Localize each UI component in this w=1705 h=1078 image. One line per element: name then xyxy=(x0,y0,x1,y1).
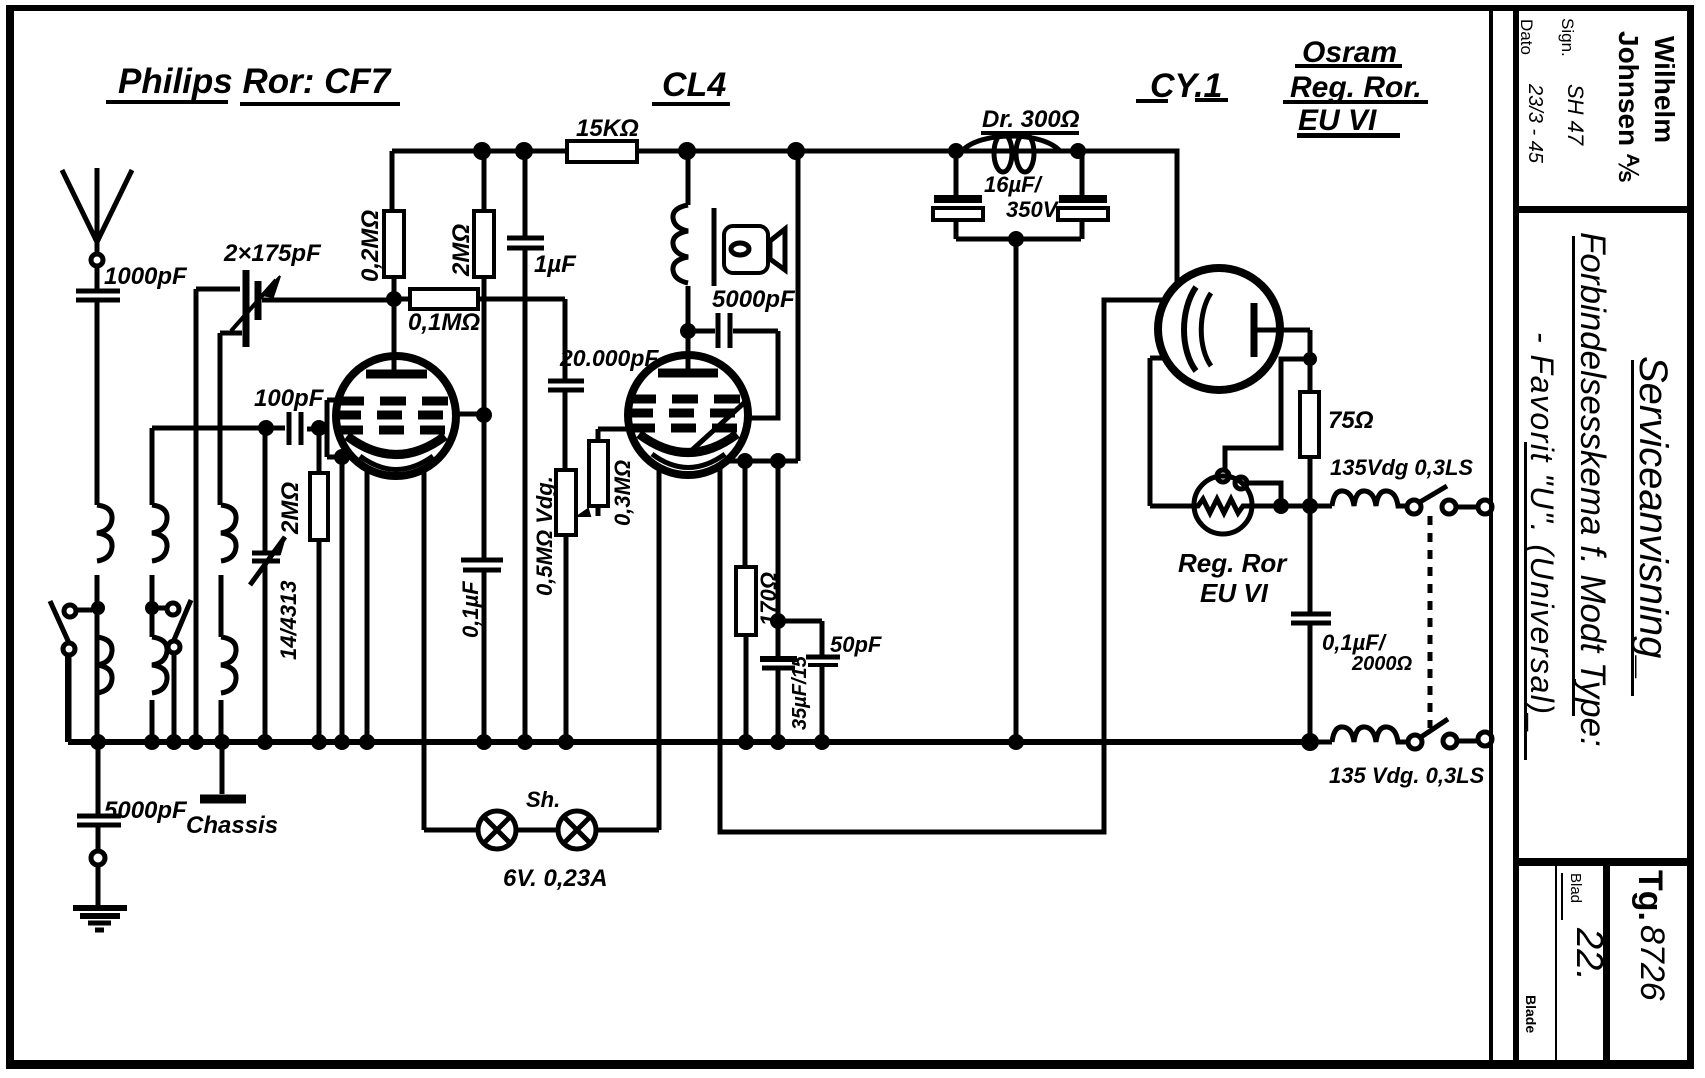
svg-text:14/4313: 14/4313 xyxy=(276,580,301,660)
svg-text:170Ω: 170Ω xyxy=(756,572,781,626)
svg-text:8726: 8726 xyxy=(1633,925,1671,1001)
svg-text:20.000pF: 20.000pF xyxy=(559,345,659,371)
svg-text:5000pF: 5000pF xyxy=(104,797,188,824)
svg-text:EU VI: EU VI xyxy=(1200,578,1269,608)
svg-text:350V: 350V xyxy=(1006,197,1060,222)
svg-text:6V. 0,23A: 6V. 0,23A xyxy=(503,865,608,892)
svg-text:Reg. Ror: Reg. Ror xyxy=(1178,548,1288,578)
svg-text:Sign.: Sign. xyxy=(1558,18,1577,57)
svg-text:Philips Ror: CF7: Philips Ror: CF7 xyxy=(118,62,392,101)
svg-text:15KΩ: 15KΩ xyxy=(576,115,639,142)
svg-text:35µF/15: 35µF/15 xyxy=(789,655,811,730)
svg-text:5000pF: 5000pF xyxy=(712,286,796,313)
svg-text:16µF/: 16µF/ xyxy=(984,172,1044,197)
svg-text:0,5MΩ Vdg.: 0,5MΩ Vdg. xyxy=(532,476,557,596)
svg-text:0,1µF/: 0,1µF/ xyxy=(1322,630,1388,655)
svg-text:2000Ω: 2000Ω xyxy=(1351,653,1412,675)
svg-text:Chassis: Chassis xyxy=(186,812,278,839)
svg-text:135 Vdg. 0,3LS: 135 Vdg. 0,3LS xyxy=(1329,763,1485,788)
svg-text:0,3MΩ: 0,3MΩ xyxy=(610,460,635,526)
svg-text:Blade: Blade xyxy=(1523,995,1539,1033)
svg-text:EU VI: EU VI xyxy=(1298,104,1377,137)
svg-text:2MΩ: 2MΩ xyxy=(448,224,475,277)
svg-text:Wilhelm: Wilhelm xyxy=(1649,36,1680,143)
svg-text:1µF: 1µF xyxy=(534,251,577,278)
svg-text:22.: 22. xyxy=(1568,927,1610,981)
svg-text:Forbindelsesskema f. Modt Type: Forbindelsesskema f. Modt Type: xyxy=(1573,232,1612,747)
svg-text:Reg. Ror.: Reg. Ror. xyxy=(1290,71,1422,104)
svg-text:Johnsen ⅍: Johnsen ⅍ xyxy=(1613,31,1644,182)
svg-text:1000pF: 1000pF xyxy=(104,263,188,290)
svg-text:135Vdg 0,3LS: 135Vdg 0,3LS xyxy=(1330,455,1473,480)
svg-text:100pF: 100pF xyxy=(254,385,325,412)
svg-text:Blad: Blad xyxy=(1567,873,1584,903)
svg-text:50pF: 50pF xyxy=(830,632,882,657)
svg-text:Dato: Dato xyxy=(1517,19,1536,55)
svg-text:75Ω: 75Ω xyxy=(1328,407,1374,434)
svg-text:0,2MΩ: 0,2MΩ xyxy=(357,210,384,282)
svg-text:0,1MΩ: 0,1MΩ xyxy=(408,309,480,336)
svg-text:0,1µF: 0,1µF xyxy=(458,581,483,638)
svg-text:Serviceanvisning_: Serviceanvisning_ xyxy=(1631,356,1675,681)
svg-text:- Favorit "U". (Universal)_: - Favorit "U". (Universal)_ xyxy=(1524,332,1560,735)
svg-text:CL4: CL4 xyxy=(662,66,726,104)
svg-text:Tg.: Tg. xyxy=(1631,870,1669,921)
svg-text:2×175pF: 2×175pF xyxy=(223,240,322,267)
svg-text:Sh.: Sh. xyxy=(526,787,560,812)
svg-text:23/3 - 45: 23/3 - 45 xyxy=(1524,83,1546,164)
svg-text:2MΩ: 2MΩ xyxy=(277,482,304,535)
svg-text:SH 47: SH 47 xyxy=(1563,84,1588,146)
svg-text:Dr. 300Ω: Dr. 300Ω xyxy=(982,106,1080,133)
